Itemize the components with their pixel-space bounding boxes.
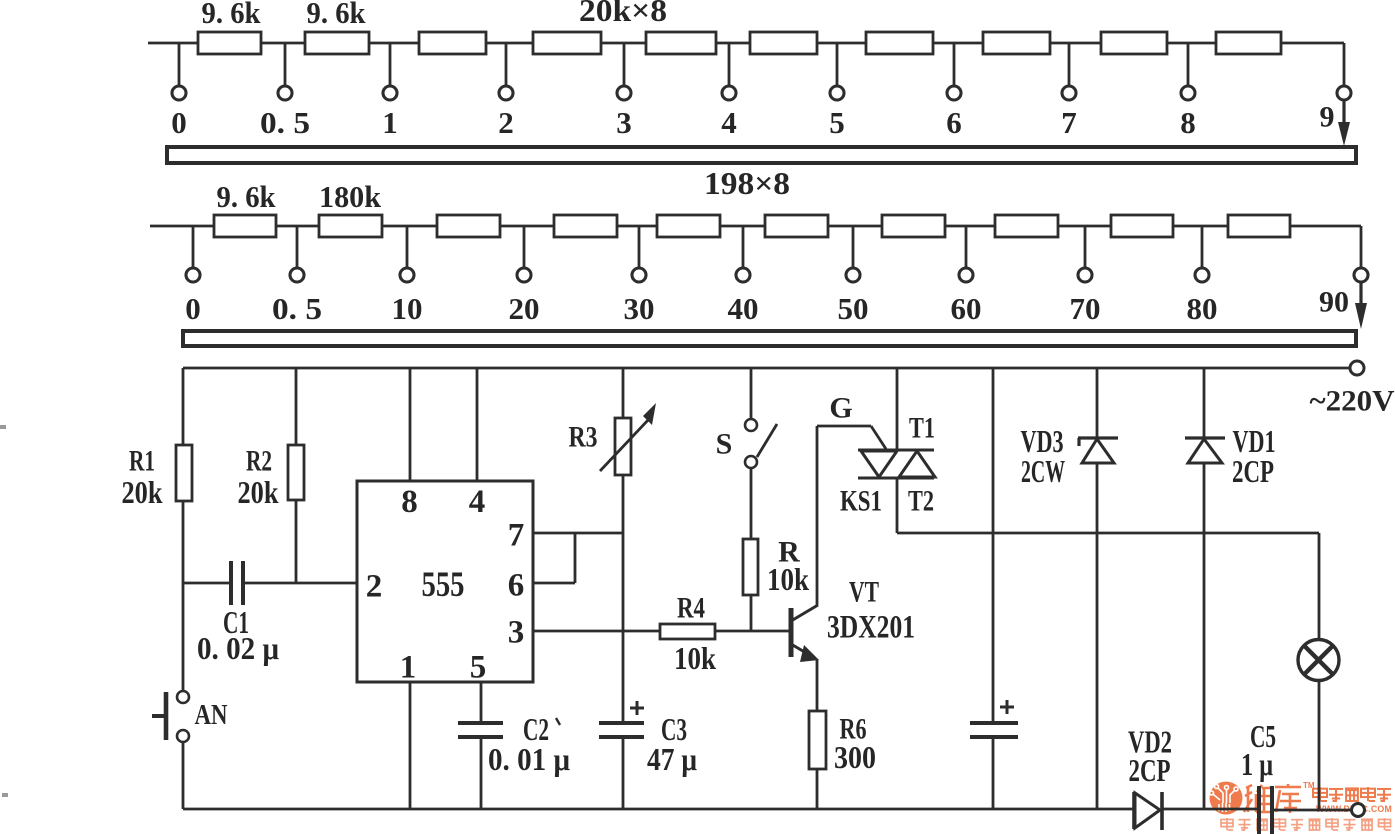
svg-text:T2: T2 [908, 485, 934, 518]
capacitor C4 (electrolytic, unlabeled) [970, 721, 1018, 725]
wire: bottom bus (left of VD2) [183, 808, 1133, 811]
node tap "60" (row 2) [965, 226, 968, 268]
resistor R [743, 539, 758, 595]
svg-text:0: 0 [185, 291, 201, 326]
svg-text:4: 4 [721, 105, 737, 140]
wire: pin 6 stub [533, 582, 575, 585]
resistor R6 [809, 711, 826, 769]
svg-text:6: 6 [508, 568, 525, 604]
svg-text:7: 7 [508, 518, 525, 554]
watermark char 库 [1275, 784, 1301, 813]
svg-text:0. 02 μ: 0. 02 μ [197, 630, 279, 666]
wire: pin 7 to R3 column [533, 532, 623, 535]
svg-text:9. 6k: 9. 6k [202, 0, 262, 30]
watermark logo circle (dzsc) [1210, 782, 1243, 815]
wire: top supply bus [183, 367, 1350, 370]
svg-text:5: 5 [829, 105, 845, 140]
svg-text:30: 30 [624, 291, 655, 326]
capacitor C5 [1257, 786, 1261, 834]
node tap "7" (row 1) [1068, 43, 1071, 86]
svg-text:7: 7 [1061, 105, 1077, 140]
node tap "0.5" (row 2) [296, 226, 299, 268]
wire: R6 to bottom bus [816, 769, 819, 809]
resistor 20k (row-1 bank, #6) [750, 32, 817, 54]
resistor R4 [660, 624, 715, 639]
svg-text:~220V: ~220V [1310, 385, 1395, 418]
svg-text:4: 4 [469, 484, 486, 520]
capacitor C3 (electrolytic) [599, 721, 644, 725]
wire: T1 terminal to top bus [896, 368, 899, 450]
scan tick after C2 [556, 718, 560, 725]
wire: bottom bus (C5 to terminal) [1274, 809, 1351, 812]
node tap "3" (row 1) [623, 43, 626, 86]
resistor 20k (row-1 bank, #9) [1101, 32, 1167, 54]
svg-text:3DX201: 3DX201 [827, 610, 915, 646]
svg-text:10: 10 [392, 291, 423, 326]
svg-text:70: 70 [1070, 291, 1101, 326]
resistor 20k (row-1 bank, #5) [646, 32, 716, 54]
node tap "70" (row 2) [1084, 226, 1087, 268]
svg-text:R2: R2 [246, 445, 272, 478]
node tap "8" (row 1) [1187, 43, 1190, 86]
resistor 198-ohm (row-2 bank, #9) [1111, 215, 1173, 237]
node tap "2" (row 1) [505, 43, 508, 86]
svg-text:60: 60 [951, 291, 982, 326]
wire: R1 to AN button [182, 501, 185, 691]
svg-text:KS1: KS1 [840, 485, 882, 518]
svg-text:6: 6 [946, 105, 962, 140]
op-amp/timer U1 555 box [357, 481, 533, 682]
wire: T2 terminal down [896, 478, 899, 533]
wire: C2 to bottom bus [480, 737, 483, 809]
wire: C3 to bottom bus [622, 737, 625, 809]
wire: pin 6/7 connecting step [574, 533, 577, 583]
svg-text:2CW: 2CW [1021, 453, 1065, 489]
wire: row-1 resistor chain top rail [148, 42, 1344, 45]
svg-text:20: 20 [509, 291, 540, 326]
resistor 198-ohm (row-2 bank, #4) [554, 215, 617, 237]
svg-text:2CP: 2CP [1232, 453, 1274, 489]
triac KS1 [858, 449, 934, 452]
svg-text:0: 0 [171, 105, 187, 140]
wire: C4 column from top bus [992, 368, 995, 723]
wire: gate lead G [817, 425, 871, 428]
svg-text:0. 01 μ: 0. 01 μ [488, 741, 570, 777]
svg-text:2CP: 2CP [1129, 752, 1171, 788]
svg-text:180k: 180k [319, 179, 382, 214]
node tap "0.5" (row 1) [284, 43, 287, 86]
resistor 198-ohm (row-2 bank, #5) [657, 215, 720, 237]
node tap "20" (row 2) [523, 226, 526, 268]
svg-text:20k×8: 20k×8 [579, 0, 667, 28]
watermark 专业电子元器件交易网站 (pseudo glyphs) [1221, 818, 1233, 830]
node tap "9" (row 1) with selector arrow [1343, 43, 1346, 86]
svg-text:10k: 10k [767, 561, 809, 597]
resistor 20k (row-1 bank, #7) [866, 32, 933, 54]
resistor 20k (row-1 bank, #8) [983, 32, 1050, 54]
diode VD3 (zener 2CW) [1078, 436, 1118, 439]
wire: S to resistor R [750, 468, 753, 539]
resistor R2 [288, 445, 304, 500]
wire: AN to bottom bus [182, 742, 185, 809]
node AC terminal (bottom right) [1352, 804, 1365, 817]
node tap "50" (row 2) [852, 226, 855, 268]
svg-text:R4: R4 [677, 592, 705, 625]
node tap "4" (row 1) [728, 43, 731, 86]
svg-text:20k: 20k [122, 474, 163, 510]
node tap "10" (row 2) [406, 226, 409, 268]
svg-text:198×8: 198×8 [704, 165, 790, 201]
watermark 电子市场网 (pseudo glyphs) [1313, 787, 1327, 801]
svg-text:R3: R3 [569, 421, 598, 454]
svg-text:T1: T1 [909, 412, 935, 445]
svg-text:80: 80 [1187, 291, 1218, 326]
svg-text:555: 555 [422, 564, 465, 604]
resistor 198-ohm (row-2 bank, #2) [319, 215, 382, 237]
resistor 198-ohm (row-2 bank, #7) [882, 215, 945, 237]
resistor 198-ohm (row-2 bank, #10) [1228, 215, 1290, 237]
wire: C4 to bottom bus [992, 737, 995, 809]
wiper bar (row-1 selector) [167, 147, 1356, 163]
wire: bottom bus (VD2 to C5) [1162, 808, 1257, 811]
node tap "5" (row 1) [836, 43, 839, 86]
node AC terminal (top right) [1350, 361, 1364, 375]
capacitor C1 [229, 561, 233, 605]
wire: lamp branch down [1318, 533, 1321, 640]
svg-text:1 μ: 1 μ [1241, 746, 1273, 782]
pushbutton AN [177, 691, 189, 703]
resistor R1 [176, 445, 192, 501]
svg-text:2: 2 [366, 569, 383, 605]
scan speck left edge upper [0, 425, 6, 429]
wire: R4 to transistor base [715, 630, 789, 633]
svg-text:9. 6k: 9. 6k [307, 0, 367, 30]
diode VD2 (2CP, in series with bus) [1132, 792, 1136, 829]
node tap "90" (row 2) with selector arrow [1360, 226, 1363, 268]
svg-text:2: 2 [498, 105, 514, 140]
node tap "1" (row 1) [389, 43, 392, 86]
wire: C1 to 555 pin 2 [245, 582, 357, 585]
wire: pin 8 to top bus [409, 368, 412, 481]
wire: switch S column from top bus [750, 368, 753, 419]
svg-text:G: G [829, 392, 852, 425]
svg-text:1: 1 [400, 650, 417, 686]
scan speck left edge lower [2, 793, 8, 797]
wire: VD3 column from top bus [1096, 368, 1099, 437]
svg-text:1: 1 [382, 105, 398, 140]
node tap "30" (row 2) [638, 226, 641, 268]
wire: VD1 to bottom bus [1203, 463, 1206, 809]
node tap "40" (row 2) [742, 226, 745, 268]
wire: pin 5 down to C2 [480, 682, 483, 723]
wire: row-2 resistor chain top rail [150, 225, 1361, 228]
wire: R2 down to trigger node [295, 500, 298, 583]
node tap "0" (row 2) [192, 226, 195, 268]
svg-text:3: 3 [616, 105, 632, 140]
wire: pin 3 output to R4 [533, 630, 660, 633]
watermark char 维 [1244, 785, 1272, 812]
svg-text:9. 6k: 9. 6k [217, 179, 277, 214]
wire: R3 down through pin7 node to C3 [622, 475, 625, 723]
svg-text:AN: AN [195, 699, 228, 731]
svg-text:5: 5 [470, 650, 487, 686]
node tap "80" (row 2) [1201, 226, 1204, 268]
variable resistor R3 [615, 418, 631, 475]
resistor 198-ohm (row-2 bank, #6) [765, 215, 828, 237]
svg-text:S: S [716, 428, 733, 461]
wire: T2 output line to lamp branch [897, 532, 1319, 535]
svg-text:20k: 20k [238, 474, 279, 510]
node tap "0" (row 1) [178, 43, 181, 86]
svg-text:R1: R1 [129, 445, 155, 478]
resistor 20k (row-1 bank, #4) [533, 32, 601, 54]
svg-text:3: 3 [508, 615, 525, 651]
wire: pin 4 to top bus [476, 368, 479, 481]
wire: R down to base node [750, 595, 753, 631]
wire: emitter down to R6 [816, 659, 819, 711]
resistor 20k (row-1 bank, #2) [305, 32, 369, 54]
resistor 198-ohm (row-2 bank, #8) [995, 215, 1058, 237]
svg-text:300: 300 [834, 739, 876, 775]
svg-text:0. 5: 0. 5 [272, 291, 322, 326]
wire: pin 1 to bottom bus [409, 682, 412, 809]
resistor 20k (row-1 bank, #3) [419, 32, 486, 54]
svg-text:8: 8 [401, 484, 418, 520]
wire: VD3 to bottom bus [1096, 463, 1099, 809]
svg-text:9: 9 [1320, 101, 1335, 134]
diode VD1 (2CP) [1185, 436, 1225, 439]
svg-text:47 μ: 47 μ [647, 741, 697, 777]
wire: trigger node row to C1 [183, 582, 229, 585]
resistor 198-ohm (row-2 bank, #3) [437, 215, 500, 237]
lamp EL [1298, 640, 1339, 681]
capacitor C2 [458, 721, 503, 725]
resistor 198-ohm (row-2 bank, #1) [214, 215, 276, 237]
svg-text:50: 50 [838, 291, 869, 326]
wire: lamp to bottom node [1318, 680, 1321, 810]
svg-text:40: 40 [728, 291, 759, 326]
wire: VD1 column from top bus [1203, 368, 1206, 437]
resistor 20k (row-1 bank, #10) [1216, 32, 1281, 54]
svg-text:VT: VT [849, 576, 879, 609]
wire: collector up to gate corner [816, 426, 819, 605]
resistor 20k (row-1 bank, #1) [198, 32, 261, 54]
svg-text:90: 90 [1319, 286, 1349, 319]
svg-text:8: 8 [1180, 105, 1196, 140]
svg-text:0. 5: 0. 5 [260, 105, 310, 140]
switch S [745, 419, 757, 431]
wire: left column (R1 branch) [182, 368, 185, 445]
wire: R2 column from top bus [295, 368, 298, 445]
wire: R3 column from top bus [622, 368, 625, 418]
node tap "6" (row 1) [953, 43, 956, 86]
svg-text:10k: 10k [674, 640, 716, 676]
wiper bar (row-2 selector) [183, 331, 1356, 346]
transistor VT (3DX201) [789, 608, 794, 657]
